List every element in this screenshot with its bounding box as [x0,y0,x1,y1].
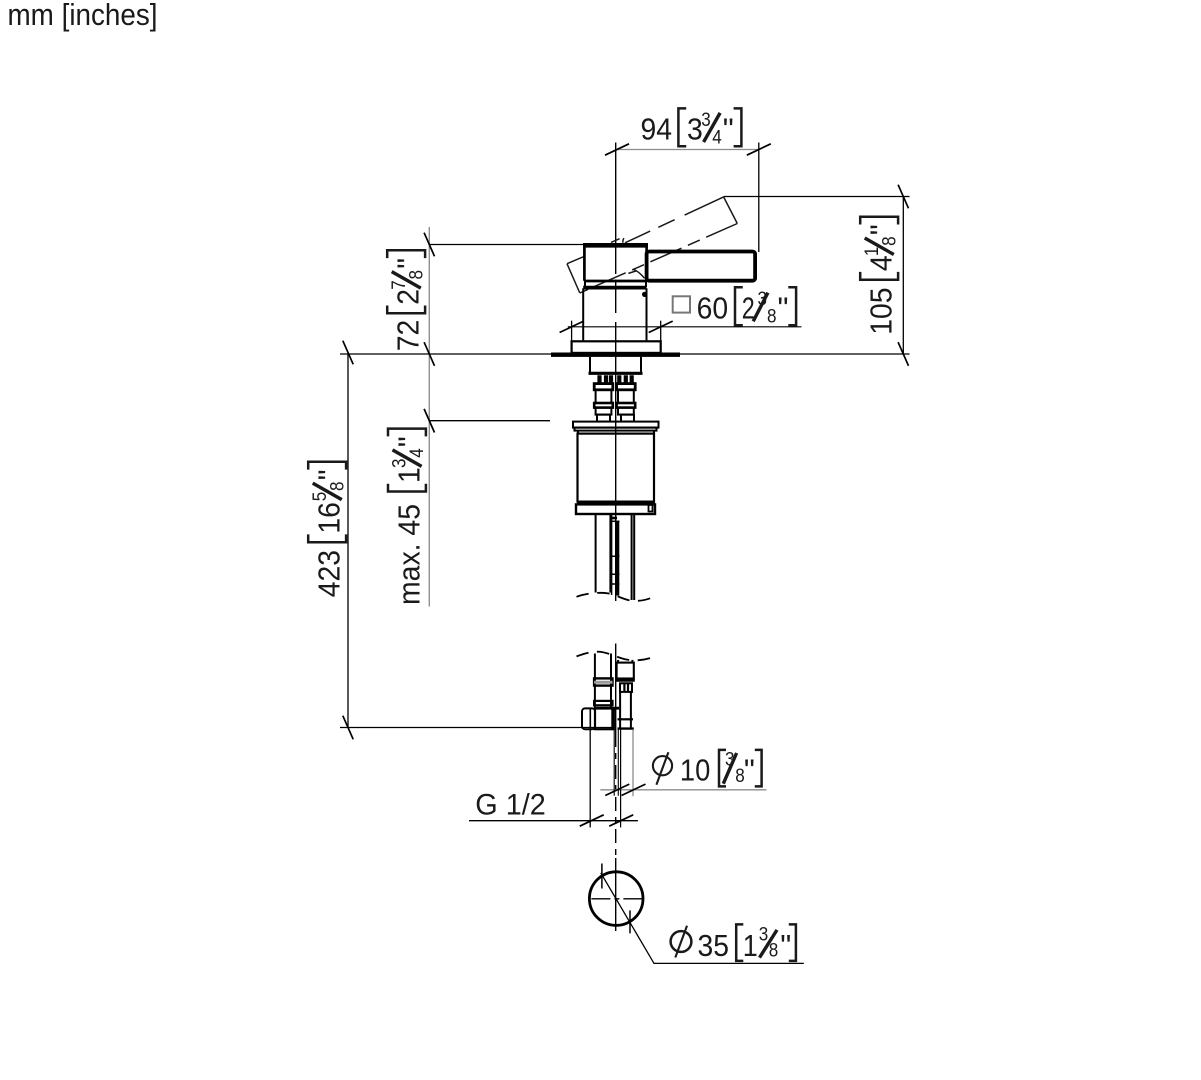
valve body (lower block) [583,288,646,342]
right tube below nut [618,692,634,729]
extension line right of 94 [758,143,760,253]
svg-text:": " [778,291,789,326]
centerline solid through outlet circle [615,858,617,931]
tick at countertop [424,342,434,366]
left riser tube lower [595,654,611,709]
break line upper [577,593,654,601]
right riser tube upper [632,514,635,600]
svg-text:": " [391,436,426,447]
left supply fitting stack [594,384,613,422]
cartridge housing cylinder [577,434,655,503]
angle valve hex nut [582,708,595,729]
break line lower [577,652,654,661]
countertop slab (thick) [551,353,680,357]
dimension dia35 leader [601,864,804,964]
tick 72 top [424,233,434,257]
svg-text:max. 45: max. 45 [391,504,426,605]
label 105 [4 1/8"] rotated [860,217,900,335]
dimension dia10 [600,730,766,828]
svg-text:": " [723,112,734,147]
svg-text:10: 10 [680,753,710,788]
svg-text:105: 105 [864,288,899,335]
housing bottom cap [576,504,655,514]
handle raised position (phantom outline) [567,197,737,293]
dimension 94 top [617,149,759,151]
svg-text:1: 1 [743,928,758,963]
reference line cap top to 72 [429,244,584,246]
svg-text:8: 8 [327,482,348,492]
left tube coupling band [594,678,612,705]
dimension 105 right [898,185,908,366]
joint band between cap and body [585,281,646,287]
circle horizontal centerline [591,898,645,900]
svg-text:": " [744,753,755,788]
label 423 [16 5/8"] rotated [308,462,348,598]
svg-text:8: 8 [769,941,779,962]
right tube compression nut [616,663,635,692]
svg-text:": " [391,258,426,269]
lever handle (horizontal position) [647,252,756,281]
central pull rod upper [612,514,620,596]
cartridge housing flange [573,422,659,434]
cartridge cap (upper body block) [583,245,648,281]
svg-text:4: 4 [407,448,428,458]
label 72 [2 7/8"] rotated [387,250,427,351]
mounting shaft block [589,357,643,373]
label 94 [3 3/4"] [641,108,742,148]
svg-text:4: 4 [712,128,722,149]
svg-text:2: 2 [391,289,426,305]
label dia 10 [3/8"] [653,750,762,788]
svg-text:35: 35 [698,928,730,963]
svg-text:": " [780,928,791,963]
svg-text:1: 1 [391,467,426,483]
svg-text:": " [312,469,347,480]
reference line 423 bottom [340,727,614,729]
reference line max45 bottom [429,420,550,422]
dimension 72 / max45 shared line [424,227,584,607]
svg-text:G 1/2: G 1/2 [475,789,546,822]
label dia 35 [1 3/8"] [671,924,796,963]
outlet circle (drain) [589,872,643,926]
svg-text:94: 94 [641,112,673,147]
dimension G1/2 [469,730,638,828]
svg-text:8: 8 [406,270,427,280]
reference line handle top to 105 [724,196,910,198]
dimension 423 left [340,341,614,740]
svg-text:": " [864,224,899,235]
svg-text:mm [inches]: mm [inches] [8,0,158,32]
right supply fitting stack [617,384,636,422]
svg-text:3: 3 [759,924,769,945]
label max. 45 [1 3/4"] rotated [388,429,428,605]
dimension square60 [560,321,802,342]
svg-text:8: 8 [767,307,777,328]
svg-text:3: 3 [701,110,711,131]
tick max45 bottom [424,409,434,433]
tick 94 right [747,144,771,155]
svg-text:423: 423 [312,550,347,597]
svg-text:16: 16 [312,502,347,534]
escutcheon plate [572,341,661,353]
angle valve body [594,708,619,729]
left riser tube upper [596,514,611,593]
svg-text:72: 72 [391,320,426,352]
label square 60 [2 3/8"] [673,287,796,327]
threaded tailpiece ridges [600,375,632,383]
tick 94 left [605,144,629,155]
countertop reference line [340,353,910,355]
centerline (vertical axis) [615,143,617,602]
index dot on body [642,292,647,297]
svg-text:4: 4 [864,255,899,271]
svg-text:8: 8 [879,236,900,246]
svg-text:60: 60 [697,291,729,326]
right riser tube lower [618,660,632,663]
